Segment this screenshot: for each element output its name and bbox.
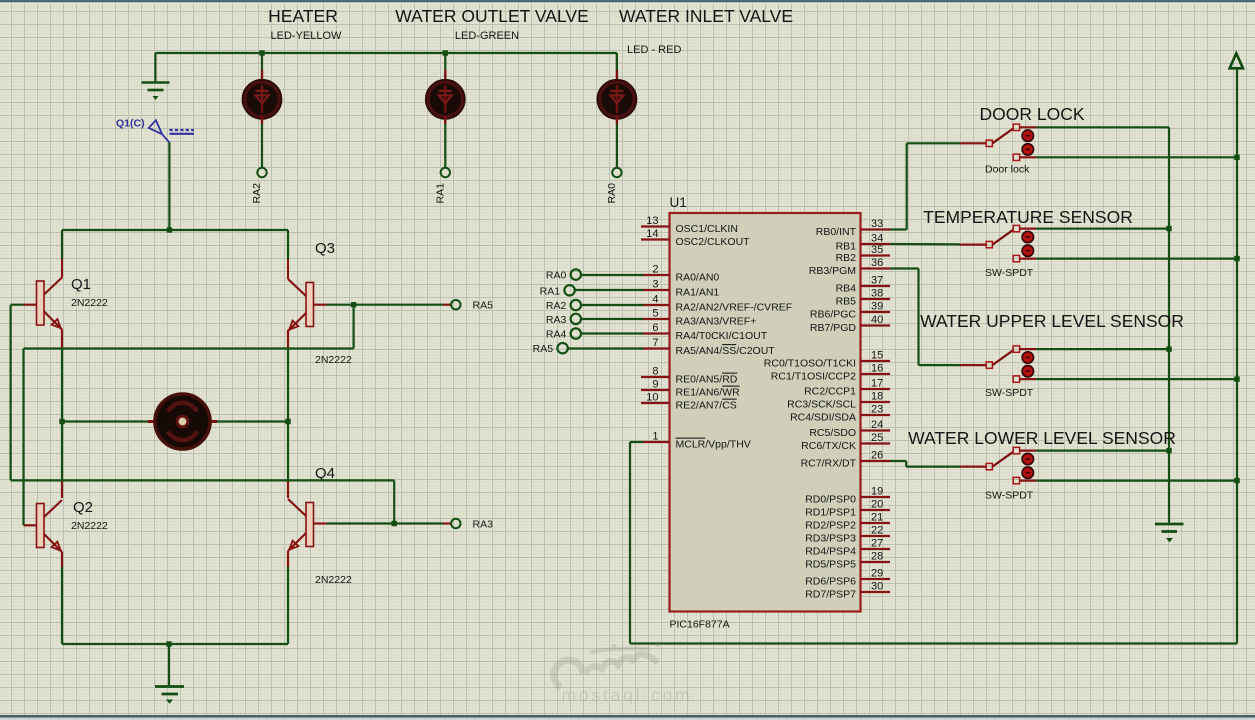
wire bottom long rail to VCC <box>630 642 1237 644</box>
wire Q4 base pin <box>314 522 327 524</box>
terminal RA4 chip-side <box>546 328 644 340</box>
svg-text:RA1: RA1 <box>540 285 561 297</box>
svg-text:RE2/AN7/CS: RE2/AN7/CS <box>676 400 737 412</box>
svg-text:RA2: RA2 <box>251 183 263 204</box>
junction lower top/gnd rail <box>1166 448 1171 453</box>
pin 39 RB6 right <box>810 301 890 321</box>
pin 36 RB3 right <box>809 257 890 277</box>
svg-text:RB6/PGC: RB6/PGC <box>810 309 857 321</box>
switch SW2 temperature sensor <box>959 225 1036 261</box>
svg-text:RC4/SDI/SDA: RC4/SDI/SDA <box>790 412 856 424</box>
svg-text:34: 34 <box>871 233 883 245</box>
pin 13 OSC1 left <box>641 215 738 235</box>
svg-text:RD3/PSP3: RD3/PSP3 <box>805 533 856 545</box>
wire vertical for Q3 base junction drop <box>353 305 355 349</box>
svg-text:RE1/AN6/WR: RE1/AN6/WR <box>676 387 741 399</box>
wire Q4 base vertical <box>393 480 395 523</box>
svg-text:RA2/AN2/VREF-/CVREF: RA2/AN2/VREF-/CVREF <box>676 302 793 314</box>
wire Q3 emitter pin <box>287 330 289 349</box>
junction upper bottom/vcc <box>1234 376 1239 381</box>
pin 29 RD6 right <box>805 568 890 588</box>
svg-text:SW-SPDT: SW-SPDT <box>985 490 1034 502</box>
svg-text:RB1: RB1 <box>836 241 857 253</box>
svg-text:DOOR LOCK: DOOR LOCK <box>979 104 1084 124</box>
svg-text:RB0/INT: RB0/INT <box>816 226 857 238</box>
pin 33 RB0 right <box>816 218 890 238</box>
svg-text:LED-YELLOW: LED-YELLOW <box>271 30 343 42</box>
wire door pole to RB0 <box>907 142 960 144</box>
wire temp bottom throw to vcc rail <box>1036 258 1237 260</box>
wire Q2 base pin <box>24 524 37 526</box>
pin 30 RD7 right <box>805 581 890 601</box>
pin 5 RA3 left <box>641 308 756 328</box>
junction temp bottom/vcc <box>1234 256 1239 261</box>
svg-text:Q2: Q2 <box>73 499 93 516</box>
svg-text:26: 26 <box>871 450 883 462</box>
svg-text:RB7/PGD: RB7/PGD <box>810 322 857 334</box>
svg-text:RA0: RA0 <box>606 183 618 204</box>
svg-text:WATER OUTLET VALVE: WATER OUTLET VALVE <box>395 6 589 26</box>
wire to bottom ground <box>168 644 170 685</box>
svg-text:WATER UPPER LEVEL SENSOR: WATER UPPER LEVEL SENSOR <box>920 311 1184 331</box>
junction top rail at LED1 <box>259 50 264 55</box>
pin 34 RB1 right <box>836 233 890 253</box>
pin 6 RA4 left <box>641 322 768 342</box>
transistor Q2 2N2222 <box>37 500 63 552</box>
LED D1 LED-YELLOW <box>242 53 281 177</box>
wire upper bottom throw to vcc rail <box>1036 378 1237 380</box>
svg-text:U1: U1 <box>670 195 687 210</box>
svg-text:5: 5 <box>652 308 658 320</box>
svg-text:RD0/PSP0: RD0/PSP0 <box>805 494 856 506</box>
svg-text:RA3/AN3/VREF+: RA3/AN3/VREF+ <box>676 316 757 328</box>
ground bottom <box>155 687 184 704</box>
wire door bottom throw to vcc rail <box>1036 156 1237 158</box>
svg-text:4: 4 <box>652 294 658 306</box>
pin 10 RE2 left <box>641 392 737 412</box>
svg-text:LED-GREEN: LED-GREEN <box>455 30 519 42</box>
wire door top throw to gnd rail <box>1036 126 1169 128</box>
svg-text:10: 10 <box>646 392 658 404</box>
terminal RA1 chip-side <box>540 285 644 297</box>
power terminal (arrow) top right <box>1230 53 1243 68</box>
svg-text:RB4: RB4 <box>836 283 857 295</box>
pin 23 RC4 right <box>790 404 890 424</box>
svg-text:19: 19 <box>871 486 883 498</box>
svg-text:RA3: RA3 <box>473 519 494 531</box>
wire Q3 base to junction <box>327 304 354 306</box>
svg-text:RC0/T1OSO/T1CKI: RC0/T1OSO/T1CKI <box>764 358 856 370</box>
junction top rail at LED2 <box>443 50 448 55</box>
terminal RA3 chip-side <box>546 314 644 326</box>
pin 15 RC0 right <box>764 350 890 370</box>
wire Q2 base vertical <box>22 349 24 526</box>
svg-text:RE0/AN5/RD: RE0/AN5/RD <box>676 374 738 386</box>
svg-text:RD5/PSP5: RD5/PSP5 <box>805 559 856 571</box>
LED D2 LED-GREEN <box>426 53 465 177</box>
svg-text:29: 29 <box>871 568 883 580</box>
pin 20 RD1 right <box>805 499 890 519</box>
wire lower top throw to gnd rail <box>1036 450 1169 452</box>
svg-text:37: 37 <box>871 275 883 287</box>
wire base rail Q2/Q3 <box>24 347 354 349</box>
svg-text:9: 9 <box>652 379 658 391</box>
svg-text:25: 25 <box>871 432 883 444</box>
ground right <box>1155 524 1184 542</box>
terminal RA2 chip-side <box>546 300 644 312</box>
wire temp pole to RB1 <box>890 243 960 246</box>
svg-text:LED - RED: LED - RED <box>627 44 681 56</box>
bottom border <box>0 715 1255 718</box>
svg-text:16: 16 <box>871 363 883 375</box>
LED D3 LED-RED <box>597 53 636 177</box>
svg-text:RA5: RA5 <box>533 343 554 355</box>
svg-text:2N2222: 2N2222 <box>315 354 352 366</box>
wire left mid vertical (Q1.E - motor - Q2.C) <box>61 349 63 481</box>
top border <box>0 0 1255 2</box>
svg-text:14: 14 <box>646 228 658 240</box>
junction motor right <box>285 419 290 424</box>
transistor Q3 2N2222 <box>288 279 314 331</box>
svg-text:RC1/T1OSI/CCP2: RC1/T1OSI/CCP2 <box>771 371 856 383</box>
svg-text:Q1(C): Q1(C) <box>116 118 145 130</box>
svg-text:RD4/PSP4: RD4/PSP4 <box>805 546 856 558</box>
pin 38 RB5 right <box>836 288 890 308</box>
svg-text:Door lock: Door lock <box>985 164 1030 176</box>
junction lower bottom/vcc <box>1234 478 1239 483</box>
wire Q2 emitter pin <box>61 552 63 567</box>
wire Q3 collector riser <box>287 230 289 259</box>
pin 14 OSC2 left <box>641 228 750 248</box>
pin 35 RB2 right <box>836 244 890 264</box>
svg-text:RA2: RA2 <box>546 300 567 312</box>
pin 28 RD5 right <box>805 551 890 571</box>
svg-text:8: 8 <box>652 366 658 378</box>
wire H-bridge top rail <box>62 229 288 231</box>
svg-text:RC7/RX/DT: RC7/RX/DT <box>801 458 857 470</box>
terminal RA3 (bridge) <box>451 519 460 528</box>
junction Q4 base node <box>392 521 397 526</box>
wire ground drop top-left <box>154 53 156 82</box>
svg-text:RC2/CCP1: RC2/CCP1 <box>804 386 856 398</box>
svg-text:PIC16F877A: PIC16F877A <box>670 619 730 631</box>
switch SW3 upper level <box>959 346 1036 382</box>
svg-text:WATER LOWER LEVEL SENSOR: WATER LOWER LEVEL SENSOR <box>908 428 1176 448</box>
wire far-right vertical rail <box>1236 68 1238 643</box>
IC U1 PIC16F877A body <box>670 213 861 612</box>
wire right mid vertical (Q3.E - motor - Q4.C) <box>287 349 289 481</box>
svg-text:Q1: Q1 <box>71 276 91 293</box>
svg-text:30: 30 <box>871 581 883 593</box>
svg-text:HEATER: HEATER <box>268 6 338 26</box>
wire Q2 emitter down to bottom rail <box>61 567 63 644</box>
wire Q1 base vertical <box>10 305 12 481</box>
switch SW4 lower level <box>959 447 1036 483</box>
junction motor left <box>59 419 64 424</box>
svg-text:2N2222: 2N2222 <box>71 297 108 309</box>
pin 27 RD4 right <box>805 538 890 558</box>
pin 16 RC1 right <box>771 363 890 383</box>
svg-text:RD6/PSP6: RD6/PSP6 <box>805 576 856 588</box>
svg-text:RA5/AN4/SS/C2OUT: RA5/AN4/SS/C2OUT <box>676 345 776 357</box>
wire Q4 emitter pin <box>287 551 289 567</box>
pin 1 left <box>641 431 751 451</box>
svg-text:2N2222: 2N2222 <box>315 574 352 586</box>
svg-text:WATER INLET VALVE: WATER INLET VALVE <box>619 6 793 26</box>
svg-text:mostaql·com: mostaql·com <box>562 685 693 705</box>
pin 4 RA2 left <box>641 294 792 314</box>
svg-text:RC3/SCK/SCL: RC3/SCK/SCL <box>787 399 856 411</box>
pin 7 RA5 left <box>641 337 775 357</box>
svg-text:35: 35 <box>871 244 883 256</box>
svg-text:RB5: RB5 <box>836 296 857 308</box>
transistor Q1 2N2222 <box>37 278 63 330</box>
terminal RA5 (bridge) <box>451 300 460 309</box>
svg-text:SW-SPDT: SW-SPDT <box>985 387 1034 399</box>
junction temp top/gnd rail <box>1166 226 1171 231</box>
wire upper pole to RB3 <box>890 267 919 269</box>
wire top LED rail <box>155 52 617 54</box>
svg-text:27: 27 <box>871 538 883 550</box>
svg-text:18: 18 <box>871 391 883 403</box>
wire Q1 base pin <box>24 304 37 306</box>
wire throws-common vertical (to ground) <box>1168 127 1170 522</box>
svg-text:RA0/AN0: RA0/AN0 <box>676 272 720 284</box>
svg-text:MCLR/Vpp/THV: MCLR/Vpp/THV <box>676 439 751 451</box>
ground top-left <box>142 83 170 101</box>
svg-text:6: 6 <box>652 322 658 334</box>
svg-text:15: 15 <box>871 350 883 362</box>
svg-text:RA0: RA0 <box>546 270 567 282</box>
wire lower pole to RC7 <box>890 460 906 462</box>
svg-text:RB2: RB2 <box>836 252 857 264</box>
pin 21 RD2 right <box>805 512 890 532</box>
junction door bottom/vcc <box>1234 155 1239 160</box>
pin 17 RC2 right <box>804 378 890 398</box>
wire Q4 base to junction <box>327 522 395 524</box>
svg-text:TEMPERATURE SENSOR: TEMPERATURE SENSOR <box>923 207 1133 227</box>
terminal RA5 chip-side <box>533 343 644 355</box>
junction probe/top rail <box>167 227 172 232</box>
svg-text:RA1: RA1 <box>434 183 446 204</box>
svg-text:17: 17 <box>871 378 883 390</box>
pin 24 RC5 right <box>809 419 890 439</box>
junction upper top/gnd rail <box>1166 346 1171 351</box>
svg-text:2: 2 <box>652 264 658 276</box>
wire Q4 emitter down to bottom rail <box>287 567 289 644</box>
svg-text:2N2222: 2N2222 <box>71 520 108 532</box>
pin 40 RB7 right <box>810 314 890 334</box>
probe Q1(C) <box>116 118 194 143</box>
switch SW1 Door lock <box>959 124 1036 160</box>
svg-text:36: 36 <box>871 257 883 269</box>
wire upper top throw to gnd rail <box>1036 348 1169 350</box>
wire Q1 emitter pin <box>61 330 63 349</box>
svg-text:21: 21 <box>871 512 883 524</box>
svg-text:Q3: Q3 <box>315 240 335 257</box>
svg-text:7: 7 <box>652 337 658 349</box>
watermark mostaql <box>554 641 661 687</box>
pin 3 RA1 left <box>641 279 719 299</box>
svg-text:RC6/TX/CK: RC6/TX/CK <box>801 440 856 452</box>
svg-text:RC5/SDO: RC5/SDO <box>809 427 856 439</box>
pin 22 RD3 right <box>805 525 890 545</box>
svg-text:RD2/PSP2: RD2/PSP2 <box>805 520 856 532</box>
svg-text:39: 39 <box>871 301 883 313</box>
svg-text:13: 13 <box>646 215 658 227</box>
wire base rail Q1/Q4 <box>11 479 395 481</box>
wire junction to RA3 terminal <box>394 522 443 524</box>
svg-text:RA1/AN1: RA1/AN1 <box>676 287 720 299</box>
svg-text:OSC1/CLKIN: OSC1/CLKIN <box>676 223 738 235</box>
svg-text:1: 1 <box>652 431 658 443</box>
svg-text:3: 3 <box>652 279 658 291</box>
wire junction to RA5 terminal <box>354 304 443 306</box>
wire Q4 collector pin <box>287 480 289 498</box>
wire Q2 collector pin <box>61 480 63 498</box>
svg-text:38: 38 <box>871 288 883 300</box>
wire Q1 base to left riser <box>11 304 24 306</box>
svg-text:OSC2/CLKOUT: OSC2/CLKOUT <box>676 236 751 248</box>
wire corner down to LED3 <box>616 53 618 70</box>
svg-text:RA5: RA5 <box>473 300 494 312</box>
svg-text:SW-SPDT: SW-SPDT <box>985 267 1034 279</box>
motor M1 <box>62 394 288 449</box>
pin 26 RC7 right <box>801 450 890 470</box>
svg-text:RD1/PSP1: RD1/PSP1 <box>805 507 856 519</box>
junction Q3 base node <box>351 302 356 307</box>
svg-text:RB3/PGM: RB3/PGM <box>809 265 856 277</box>
pin 8 RE0 left <box>641 366 738 386</box>
junction bottom rail <box>166 641 171 646</box>
svg-text:RA4/T0CKI/C1OUT: RA4/T0CKI/C1OUT <box>676 330 768 342</box>
svg-text:22: 22 <box>871 525 883 537</box>
wire MCLR net <box>630 441 644 443</box>
wire H-bridge bottom rail <box>62 643 288 645</box>
wire temp top throw to gnd rail <box>1036 228 1169 230</box>
terminal RA0 chip-side <box>546 269 644 281</box>
svg-text:23: 23 <box>871 404 883 416</box>
svg-text:20: 20 <box>871 499 883 511</box>
pin 2 RA0 left <box>641 264 719 284</box>
svg-text:40: 40 <box>871 314 883 326</box>
wire Q1 collector riser <box>61 230 63 259</box>
transistor Q4 2N2222 <box>288 499 314 551</box>
pin 25 RC6 right <box>801 432 890 452</box>
svg-text:RA3: RA3 <box>546 314 567 326</box>
wire lower bottom throw to vcc rail <box>1036 480 1237 482</box>
svg-text:24: 24 <box>871 419 883 431</box>
pin 18 RC3 right <box>787 391 890 411</box>
svg-text:28: 28 <box>871 551 883 563</box>
svg-text:RA4: RA4 <box>546 329 567 341</box>
wire probe to H-bridge top rail <box>168 143 170 231</box>
svg-text:33: 33 <box>871 218 883 230</box>
wire Q3 base pin <box>314 304 327 306</box>
pin 37 RB4 right <box>836 275 890 295</box>
pin 19 RD0 right <box>805 486 890 506</box>
pin 9 RE1 left <box>641 379 740 399</box>
svg-text:RD7/PSP7: RD7/PSP7 <box>805 589 856 601</box>
